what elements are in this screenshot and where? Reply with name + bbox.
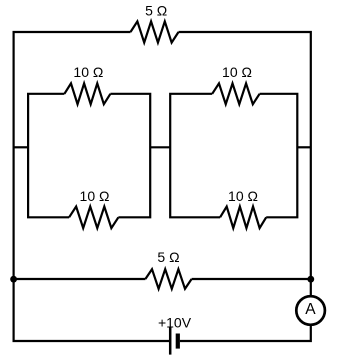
svg-text:10 Ω: 10 Ω (80, 188, 110, 204)
svg-text:A: A (305, 301, 316, 318)
svg-text:10 Ω: 10 Ω (73, 64, 103, 80)
svg-text:10 Ω: 10 Ω (228, 188, 258, 204)
svg-text:5 Ω: 5 Ω (145, 3, 167, 19)
svg-text:10 Ω: 10 Ω (222, 64, 252, 80)
svg-text:5 Ω: 5 Ω (157, 249, 179, 265)
svg-text:+10V: +10V (158, 314, 192, 330)
